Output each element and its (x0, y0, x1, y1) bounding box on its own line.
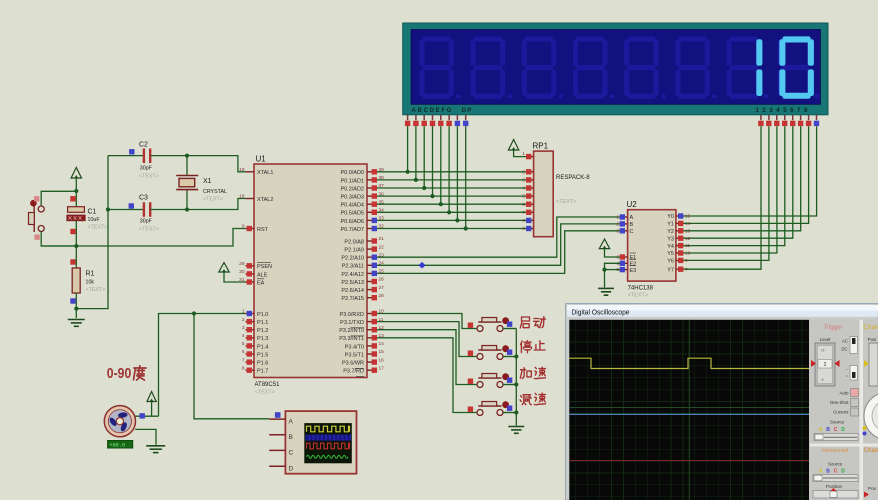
svg-text:<TEXT>: <TEXT> (203, 197, 223, 203)
svg-text:2: 2 (242, 317, 245, 323)
wire P3.2 to button 3 (376, 330, 478, 385)
svg-text:EA: EA (257, 280, 265, 286)
svg-text:29: 29 (239, 261, 245, 267)
svg-text:ABCDEFG: ABCDEFG (412, 108, 454, 114)
svg-text:4: 4 (242, 333, 245, 339)
svg-text:P0.5/AD5: P0.5/AD5 (340, 211, 364, 217)
svg-text:P2.0/A8: P2.0/A8 (344, 239, 364, 245)
svg-text:9: 9 (685, 258, 688, 264)
svg-text:Y0: Y0 (667, 214, 674, 220)
bus wires P0.0-P0.7 to RP1 (376, 171, 527, 173)
display ghost digit 4 (576, 36, 604, 41)
svg-text:24: 24 (379, 261, 385, 267)
svg-text:P3.1/TXD: P3.1/TXD (340, 320, 364, 326)
svg-text:34: 34 (379, 208, 385, 214)
svg-text:P3.6/WR: P3.6/WR (342, 361, 364, 367)
svg-text:11: 11 (379, 317, 384, 323)
RP1 pin 3 (526, 179, 534, 181)
U1 pin P3.2 (12) (367, 329, 376, 331)
wire E2/E3 to ground (605, 263, 621, 287)
svg-text:10k: 10k (86, 280, 95, 286)
display ghost digit 2 (474, 36, 502, 41)
U2 pin Y1 (14) (676, 222, 684, 224)
display ghost digit 5 (627, 36, 655, 41)
svg-text:D: D (841, 469, 845, 475)
wire Y4 to display digit 4 (684, 126, 785, 245)
U1 pin P0.0 (39) (367, 171, 376, 173)
U1 pin P1.3 (4) (246, 337, 255, 339)
display ghost digit 3 (525, 36, 553, 41)
U1 pin EA (31) (246, 281, 255, 283)
svg-text:Trigger: Trigger (823, 324, 842, 331)
U2 pin Y6 (9) (676, 259, 684, 261)
decoder U2 74HC138 body (628, 210, 676, 281)
button tingzhi (468, 345, 517, 359)
svg-text:Source: Source (828, 462, 843, 467)
junction: switch top to rail (74, 189, 78, 193)
svg-text:XTAL2: XTAL2 (257, 197, 273, 203)
label tingzhi (stop) (521, 341, 532, 353)
svg-text:X1: X1 (203, 178, 212, 185)
svg-text:7: 7 (242, 357, 245, 363)
scope trace cyan (569, 413, 809, 415)
svg-text:32: 32 (379, 224, 385, 230)
button jiasu (468, 373, 517, 387)
label jiasu (accelerate) (520, 368, 531, 379)
wire Y3 to display digit 5 (684, 126, 793, 238)
resistor R1 (70, 259, 75, 264)
svg-text:8: 8 (242, 365, 245, 371)
U1 pin P0.5 (34) (367, 211, 376, 213)
RP1 pin 5 (526, 195, 534, 197)
wire Y1 to display digit 7 (684, 126, 809, 223)
ground motor (146, 446, 165, 453)
mini scope pin A (269, 418, 285, 420)
power arrow U2 E1 (599, 239, 609, 249)
svg-text:P3.0/RXD: P3.0/RXD (340, 312, 364, 318)
U1 pin P3.4 (14) (367, 345, 376, 347)
svg-text:<TEXT>: <TEXT> (86, 287, 106, 293)
U1 pin P1.6 (7) (246, 361, 255, 363)
U2 pin E2 (4) (620, 262, 628, 264)
svg-text:12: 12 (379, 325, 385, 331)
junction: reset net (74, 244, 78, 248)
svg-text:One-Shot: One-Shot (830, 400, 850, 405)
junction crystal top (185, 154, 189, 158)
U2 pin E1 (6) (620, 256, 628, 258)
svg-text:<TEXT>: <TEXT> (556, 199, 576, 205)
U1 pin P3.6 (16) (367, 361, 376, 363)
svg-text:2: 2 (522, 169, 525, 175)
motor angle readout (108, 440, 133, 448)
oscilloscope window (566, 304, 878, 500)
junction crystal bottom (185, 207, 189, 211)
svg-text:U1: U1 (256, 155, 267, 164)
U1 pin P3.0 (10) (367, 313, 376, 315)
ground buttons (508, 427, 524, 434)
U1 pin P1.0 (1) (246, 313, 255, 315)
U2 pin E3 (5) (620, 269, 628, 271)
svg-text:P1.5: P1.5 (257, 352, 268, 358)
capacitor C1 (70, 196, 75, 201)
svg-text:P1.6: P1.6 (257, 361, 268, 367)
svg-text:12: 12 (685, 236, 691, 242)
U1 pin P2.5 (26) (367, 281, 376, 283)
svg-text:9: 9 (522, 226, 525, 232)
U1 pin P2.0 (21) (367, 240, 376, 242)
U1 pin P0.4 (35) (367, 203, 376, 205)
svg-text:P2.5/A13: P2.5/A13 (341, 280, 364, 286)
svg-text:A: A (289, 418, 294, 425)
svg-text:<TEXT>: <TEXT> (628, 293, 648, 299)
U1 pin ALE (30) (246, 273, 255, 275)
svg-text:XTAL1: XTAL1 (257, 170, 273, 176)
svg-text:P0.0/AD0: P0.0/AD0 (340, 170, 364, 176)
wire Y6 to display digit 2 (684, 126, 769, 260)
svg-text:RESPACK-8: RESPACK-8 (556, 175, 590, 181)
svg-text:P2.1/A9: P2.1/A9 (344, 248, 364, 254)
svg-text:3: 3 (616, 228, 619, 234)
svg-text:P0.6/AD6: P0.6/AD6 (340, 219, 364, 225)
svg-text:P3.5/T1: P3.5/T1 (345, 352, 364, 358)
svg-text:38: 38 (379, 175, 385, 181)
wire P2.3 to U2 B (376, 224, 621, 265)
svg-text:Auto: Auto (839, 391, 849, 396)
label qidong (start) (520, 317, 529, 328)
U1 pin P1.2 (3) (246, 329, 255, 331)
svg-text:P0.3/AD3: P0.3/AD3 (340, 195, 364, 201)
scope trace yellow (569, 358, 809, 368)
wire Y0 to display digit 8 (684, 126, 817, 216)
svg-text:0-90: 0-90 (107, 365, 132, 382)
svg-text:Digital Oscilloscope: Digital Oscilloscope (572, 308, 630, 317)
RP1 pin 8 (526, 219, 534, 221)
svg-text:P1.7: P1.7 (257, 369, 268, 375)
svg-text:AT89C51: AT89C51 (255, 382, 281, 388)
svg-text:<TEXT>: <TEXT> (88, 225, 108, 231)
U1 pin RST (9) (246, 228, 255, 230)
ground U2 (598, 288, 614, 295)
svg-text:6: 6 (242, 349, 245, 355)
svg-text:+88.0: +88.0 (110, 443, 126, 449)
svg-text:P1.0: P1.0 (257, 312, 268, 318)
display digit-select pins (1-8) (760, 115, 762, 120)
U2 pin Y4 (11) (676, 245, 684, 247)
U1 pin P2.2 (23) (367, 256, 376, 258)
wire P2.2 to U2 A (376, 217, 621, 257)
U1 pin P0.6 (33) (367, 219, 376, 221)
wire switch bottom (41, 232, 76, 247)
svg-text:P3.4/T0: P3.4/T0 (345, 344, 364, 350)
U2 pin Y0 (15) (676, 215, 684, 217)
svg-text:23: 23 (379, 252, 385, 258)
display lit digit 1 (756, 39, 762, 66)
U2 pin Y5 (10) (676, 252, 684, 254)
wire C2 to XTAL1 (150, 156, 245, 172)
svg-text:P3.2/INT0: P3.2/INT0 (339, 328, 364, 334)
svg-text:U2: U2 (627, 200, 638, 209)
svg-text:7: 7 (522, 210, 525, 216)
svg-text:14: 14 (379, 341, 385, 347)
RP1 pin 1 (526, 156, 534, 158)
display ghost digit 1 (423, 36, 451, 41)
svg-text:B: B (289, 434, 293, 441)
svg-text:+5: +5 (821, 349, 825, 353)
capacitor C2 (108, 155, 143, 157)
wire Y5 to display digit 3 (684, 126, 777, 253)
U1 pin P2.7 (28) (367, 297, 376, 299)
U1 pin P2.6 (27) (367, 289, 376, 291)
respack RP1 body (534, 151, 554, 237)
wire motor lower terminal to ground (135, 429, 156, 444)
svg-text:C2: C2 (139, 142, 148, 149)
svg-text:15: 15 (685, 214, 691, 220)
svg-text:CRYSTAL: CRYSTAL (203, 189, 227, 195)
svg-text:13: 13 (379, 333, 385, 339)
svg-text:21: 21 (379, 236, 385, 242)
wire P3.1 to button 2 (376, 322, 478, 357)
svg-text:Position: Position (826, 484, 843, 489)
svg-text:B: B (826, 427, 830, 433)
U1 pin XTAL2 (18) (246, 198, 255, 200)
scope control panel (809, 320, 878, 500)
wire C3 to XTAL2 (150, 199, 245, 210)
svg-text:P0.1/AD1: P0.1/AD1 (340, 178, 364, 184)
svg-text:D: D (841, 427, 845, 433)
svg-text:5: 5 (242, 341, 245, 347)
svg-text:E1: E1 (630, 255, 637, 261)
svg-text:25: 25 (379, 269, 385, 275)
wire branch to scope A (194, 314, 269, 419)
button jiansu (468, 401, 517, 415)
U1 pin P2.3 (24) (367, 264, 376, 266)
svg-text:C1: C1 (88, 209, 97, 216)
svg-text:E3: E3 (630, 268, 637, 274)
svg-text:27: 27 (379, 285, 385, 291)
svg-text:<TEXT>: <TEXT> (255, 390, 275, 396)
svg-text:1: 1 (616, 215, 619, 221)
svg-text:P2.3/A11: P2.3/A11 (342, 264, 364, 270)
svg-text:35: 35 (379, 199, 385, 205)
svg-text:Y1: Y1 (667, 222, 674, 228)
power arrow motor (147, 392, 156, 402)
wire reset net to RST (41, 229, 245, 247)
U1 pin P3.1 (11) (367, 321, 376, 323)
U1 pin P1.5 (6) (246, 353, 255, 355)
svg-text:17: 17 (379, 365, 385, 371)
svg-text:R1: R1 (86, 271, 95, 278)
svg-text:C: C (630, 229, 634, 235)
button ground rail (515, 329, 517, 426)
svg-text:Level: Level (820, 337, 831, 342)
svg-text:<TEXT>: <TEXT> (139, 174, 159, 180)
display ghost digit 6 (679, 36, 707, 41)
ground (reset circuit) (68, 320, 85, 327)
U1 pin PSEN (29) (246, 265, 255, 267)
svg-text:3: 3 (522, 178, 525, 184)
svg-text:RST: RST (257, 227, 269, 233)
svg-text:7: 7 (685, 267, 688, 273)
svg-text:P0.7/AD7: P0.7/AD7 (340, 227, 364, 233)
svg-text:30: 30 (239, 269, 245, 275)
svg-text:AC: AC (842, 339, 848, 344)
svg-text:Y6: Y6 (667, 259, 674, 265)
U1 pin P0.7 (32) (367, 228, 376, 230)
display segment pins (A-DP) (407, 115, 409, 120)
svg-text:28: 28 (379, 293, 385, 299)
RP1 pin 9 (526, 228, 534, 230)
svg-text:C: C (289, 450, 294, 457)
svg-text:22: 22 (379, 244, 385, 250)
U1 pin P0.3 (36) (367, 195, 376, 197)
scope screen (569, 320, 809, 500)
mcu U1 AT89C51 body (254, 164, 367, 378)
svg-text:P2.2/A10: P2.2/A10 (341, 256, 364, 262)
U1 pin P1.1 (2) (246, 321, 255, 323)
svg-text:39: 39 (379, 167, 385, 173)
mini oscilloscope component (285, 411, 356, 474)
svg-text:2: 2 (616, 222, 619, 228)
svg-text:16: 16 (379, 357, 385, 363)
svg-text:30pF: 30pF (140, 166, 153, 172)
display DS1 frame (403, 23, 828, 115)
U1 pin P0.1 (38) (367, 179, 376, 181)
RP1 pin 6 (526, 203, 534, 205)
U1 pin P3.5 (15) (367, 353, 376, 355)
svg-text:A: A (819, 469, 823, 475)
U2 pin B (2) (620, 223, 628, 225)
wire P3.0 to button 1 (376, 314, 478, 329)
svg-text:5: 5 (522, 194, 525, 200)
svg-text:P1.4: P1.4 (257, 344, 268, 350)
svg-text:Chan: Chan (864, 448, 878, 454)
U1 pin P1.4 (5) (246, 345, 255, 347)
svg-text:PSEN: PSEN (257, 264, 272, 270)
svg-text:A: A (819, 427, 823, 433)
svg-text:36: 36 (379, 191, 385, 197)
svg-text:6: 6 (522, 202, 525, 208)
RP1 pin 2 (526, 171, 534, 173)
svg-text:Y2: Y2 (667, 229, 674, 235)
svg-text:Pos: Pos (868, 486, 877, 491)
svg-text:Y7: Y7 (667, 267, 674, 273)
wire P2.4 to U2 C (376, 231, 621, 274)
svg-text:10: 10 (685, 251, 691, 257)
wire switch top (41, 191, 76, 206)
mini scope waveform D (green) (307, 455, 349, 458)
svg-text:P0.4/AD4: P0.4/AD4 (340, 203, 364, 209)
svg-text:8: 8 (522, 218, 525, 224)
svg-text:2: 2 (824, 362, 827, 368)
svg-text:P1.3: P1.3 (257, 336, 268, 342)
svg-text:Y4: Y4 (667, 244, 674, 250)
U1 pin XTAL1 (19) (246, 171, 255, 173)
svg-text:Cursors: Cursors (833, 410, 849, 415)
button qidong (468, 317, 517, 331)
U2 pin C (3) (620, 230, 628, 232)
svg-text:26: 26 (379, 277, 385, 283)
svg-text:P1.2: P1.2 (257, 328, 268, 334)
U2 pin Y2 (13) (676, 230, 684, 232)
svg-text:11: 11 (685, 243, 690, 249)
probe marker on B wire (418, 262, 425, 269)
mini scope waveform C (red) (307, 443, 350, 449)
svg-text:Source: Source (830, 420, 845, 425)
wire motor upper terminal (135, 415, 158, 417)
mini scope waveform A (yellow) (307, 426, 350, 432)
svg-text:P3.3/INT1: P3.3/INT1 (339, 336, 364, 342)
svg-text:Y5: Y5 (667, 251, 674, 257)
RP1 pin 7 (526, 211, 534, 213)
svg-text:-5: -5 (821, 378, 824, 382)
crystal X1 (186, 156, 188, 176)
wire Y7 to display digit 1 (684, 126, 762, 269)
U2 pin Y3 (12) (676, 237, 684, 239)
svg-text:Chan: Chan (863, 324, 878, 331)
svg-text:14: 14 (685, 221, 691, 227)
U2 pin A (1) (620, 216, 628, 218)
svg-text:33: 33 (379, 216, 385, 222)
svg-text:Posi: Posi (868, 337, 877, 342)
svg-text:Y3: Y3 (667, 236, 674, 242)
U2 pin Y7 (7) (676, 268, 684, 270)
svg-text:P1.1: P1.1 (257, 320, 268, 326)
svg-text:P2.7/A15: P2.7/A15 (341, 296, 364, 302)
svg-text:C3: C3 (139, 195, 148, 202)
U1 pin P3.3 (13) (367, 337, 376, 339)
svg-text:ALE: ALE (257, 272, 268, 278)
svg-text:30pF: 30pF (140, 219, 153, 225)
wire cap-ground branch (76, 156, 108, 309)
svg-text:3: 3 (242, 325, 245, 331)
svg-text:C: C (834, 427, 838, 433)
U1 pin P3.7 (17) (367, 369, 376, 371)
junction: R1 bottom / cap ground net (74, 307, 78, 311)
svg-text:4: 4 (522, 186, 525, 192)
svg-text:12345678: 12345678 (756, 108, 812, 114)
wire P3.3 to button 4 (376, 338, 478, 413)
svg-text:37: 37 (379, 183, 385, 189)
svg-text:A: A (630, 215, 634, 221)
svg-text:P2.4/A12: P2.4/A12 (341, 272, 364, 278)
junction C3 left (106, 207, 110, 211)
wire P1.0 net (159, 314, 246, 417)
svg-text:Horizontal: Horizontal (822, 448, 848, 454)
U1 pin P1.7 (8) (246, 369, 255, 371)
svg-text:74HC138: 74HC138 (628, 286, 654, 292)
svg-text:P0.2/AD2: P0.2/AD2 (340, 186, 364, 192)
svg-text:DP: DP (462, 108, 473, 114)
svg-text:B: B (826, 469, 830, 475)
U1 pin P0.2 (37) (367, 187, 376, 189)
label jiansu (decelerate) (520, 395, 531, 405)
svg-text:15: 15 (379, 349, 385, 355)
U1 pin P2.1 (22) (367, 248, 376, 250)
power arrow RP1 (508, 140, 518, 151)
svg-text:RP1: RP1 (533, 142, 549, 151)
wire Y2 to display digit 6 (684, 126, 801, 231)
mini scope pin C (269, 449, 285, 451)
power arrow (reset circuit) (71, 168, 81, 179)
display segment vertical wires (407, 126, 409, 172)
svg-text:P2.6/A14: P2.6/A14 (341, 288, 364, 294)
svg-text:E2: E2 (630, 262, 637, 268)
power arrow EA (219, 263, 229, 273)
motor MG1 (104, 406, 135, 437)
svg-text:13: 13 (685, 228, 691, 234)
U1 pin P2.4 (25) (367, 272, 376, 274)
svg-text:C: C (834, 469, 838, 475)
